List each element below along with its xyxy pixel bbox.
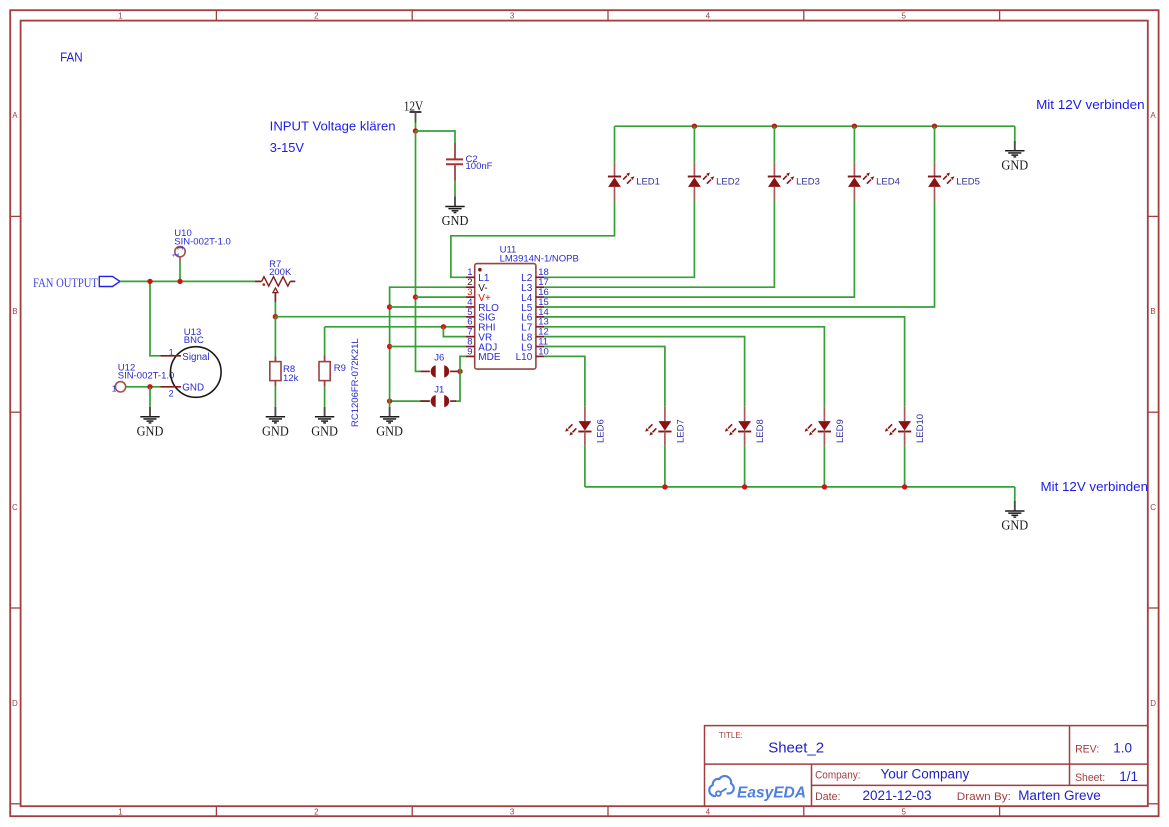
wire R7 wiper to SIG junction — [274, 302, 276, 317]
jumper J1 — [390, 384, 456, 407]
ground under R9 — [311, 407, 338, 439]
svg-text:Date:: Date: — [815, 791, 840, 803]
svg-text:200K: 200K — [269, 267, 292, 278]
wire to BNC signal — [150, 281, 161, 355]
wire SIG junction down to R8 — [274, 317, 276, 362]
svg-text:2: 2 — [169, 388, 174, 398]
LED LED2 — [688, 162, 740, 201]
netflag 12V — [404, 98, 424, 122]
svg-text:A: A — [12, 111, 18, 120]
svg-text:GND: GND — [262, 423, 289, 438]
junction rail — [852, 124, 857, 129]
LED LED3 — [768, 162, 820, 201]
wire SIG to pin 5 — [275, 316, 466, 318]
svg-text:MDE: MDE — [478, 352, 501, 363]
wire MDE to J6/J1 — [455, 356, 466, 401]
ground under U12 — [137, 407, 164, 439]
svg-text:TITLE:: TITLE: — [719, 730, 743, 740]
wire bottom rail to gnd — [1014, 487, 1016, 501]
wire RHI pin6 — [325, 326, 466, 328]
svg-text:SIN-002T-1.0: SIN-002T-1.0 — [118, 370, 175, 381]
svg-text:1: 1 — [176, 245, 185, 250]
svg-text:1: 1 — [169, 347, 174, 357]
text 3-15V — [270, 140, 305, 155]
svg-text:Signal: Signal — [182, 352, 209, 363]
wire 12V to C2 — [416, 131, 456, 143]
resistor R7 200K — [255, 259, 295, 302]
text Mit 12V verbinden (bottom) — [1041, 479, 1149, 494]
junction node U12 / BNC gnd — [147, 384, 152, 389]
svg-text:D: D — [12, 699, 18, 708]
wire 12V to junction — [415, 123, 417, 132]
svg-text:GND: GND — [182, 383, 204, 394]
svg-text:LED2: LED2 — [716, 177, 740, 188]
junction node FAN OUTPUT / BNC branch — [147, 279, 152, 284]
svg-text:Your Company: Your Company — [881, 767, 970, 782]
svg-text:RC1206FR-072K21L: RC1206FR-072K21L — [350, 338, 361, 427]
wire 12V down to J6 — [416, 131, 421, 371]
wire VR pin7 — [443, 327, 466, 337]
svg-text:LED7: LED7 — [675, 419, 686, 443]
wire C2 to ground — [454, 181, 456, 197]
svg-text:LM3914N-1/NOPB: LM3914N-1/NOPB — [500, 254, 579, 265]
svg-text:9: 9 — [467, 346, 472, 357]
svg-text:B: B — [1150, 307, 1155, 316]
EasyEDA logo — [709, 776, 806, 801]
junction rail — [902, 484, 907, 489]
capacitor C2 100nF — [446, 143, 493, 181]
connector U10 SIN-002T-1.0 — [172, 228, 231, 261]
LED LED6 — [565, 407, 606, 446]
ground under R8 — [262, 407, 289, 439]
text Mit 12V verbinden (top) — [1036, 97, 1145, 112]
svg-text:5: 5 — [901, 807, 906, 816]
junction rail — [772, 124, 777, 129]
svg-text:12k: 12k — [283, 373, 299, 384]
svg-text:B: B — [12, 307, 17, 316]
svg-text:GND: GND — [1001, 157, 1028, 172]
wire LED9 to bottom rail — [823, 446, 825, 487]
svg-text:Marten Greve: Marten Greve — [1018, 788, 1101, 803]
op-amp U11 LM3914N-1/NOPB — [466, 244, 579, 369]
svg-text:GND: GND — [1001, 518, 1028, 533]
junction J6 right — [457, 369, 462, 374]
wire R8 to ground — [274, 387, 276, 407]
connector U13 BNC — [161, 327, 222, 398]
wire RLO pin4 — [390, 306, 466, 308]
svg-text:12V: 12V — [404, 98, 424, 113]
junction node SIG — [273, 314, 278, 319]
wire V- net — [390, 287, 466, 407]
wire RHI corner to R9 — [324, 327, 326, 356]
wire pin 11 to LED7 — [544, 347, 665, 407]
wire rail to LED4 — [853, 126, 855, 162]
text FAN — [60, 50, 83, 65]
svg-text:GND: GND — [311, 423, 338, 438]
ground V- net — [376, 407, 403, 439]
wire pin 10 to LED6 — [544, 356, 585, 406]
svg-text:INPUT Voltage klären: INPUT Voltage klären — [270, 119, 396, 134]
svg-text:2: 2 — [314, 807, 319, 816]
svg-text:FAN: FAN — [60, 50, 83, 65]
wire LED4 to pin 16 — [544, 201, 854, 297]
junction rail — [932, 124, 937, 129]
text INPUT Voltage kl&#228;ren — [270, 119, 396, 134]
svg-text:GND: GND — [442, 213, 469, 228]
wire rail to LED2 — [693, 126, 695, 162]
svg-text:LED4: LED4 — [876, 177, 900, 188]
svg-text:GND: GND — [137, 423, 164, 438]
wire LED2 to pin 18 — [544, 201, 694, 277]
netport FAN OUTPUT — [33, 275, 120, 290]
svg-text:C: C — [12, 503, 18, 512]
svg-text:REV:: REV: — [1075, 744, 1099, 756]
svg-text:LED9: LED9 — [835, 419, 846, 443]
svg-text:Sheet:: Sheet: — [1075, 772, 1105, 784]
junction RHI/VR — [441, 324, 446, 329]
junction 12V — [413, 128, 418, 133]
wire ADJ pin8 — [390, 346, 466, 348]
junction ADJ — [387, 344, 392, 349]
ground under C2 — [442, 197, 469, 229]
LED LED4 — [848, 162, 900, 201]
junction V+ — [413, 294, 418, 299]
resistor R9 RC1206FR-072K21L — [319, 338, 361, 427]
connector U12 SIN-002T-1.0 — [112, 362, 175, 393]
svg-text:A: A — [1150, 111, 1156, 120]
svg-text:J1: J1 — [434, 384, 444, 395]
junction node FAN OUTPUT / U10 branch — [177, 279, 182, 284]
svg-text:1: 1 — [118, 11, 123, 20]
svg-text:BNC: BNC — [184, 335, 204, 346]
wire bottom rail — [585, 486, 1015, 488]
jumper J6 — [420, 352, 460, 377]
svg-text:LED1: LED1 — [636, 177, 660, 188]
wire LED8 to bottom rail — [744, 446, 746, 487]
svg-text:4: 4 — [706, 807, 711, 816]
svg-text:Mit 12V verbinden: Mit 12V verbinden — [1041, 479, 1149, 494]
title block — [705, 726, 1148, 807]
svg-text:5: 5 — [901, 11, 906, 20]
LED LED5 — [928, 162, 980, 201]
wire junction down to ground — [149, 387, 151, 407]
LED LED7 — [645, 407, 686, 446]
ground top rail — [1001, 141, 1028, 173]
wire LED7 to bottom rail — [664, 446, 666, 487]
svg-text:1: 1 — [112, 384, 117, 394]
svg-text:LED6: LED6 — [595, 419, 606, 443]
wire pin 13 to LED9 — [544, 327, 824, 407]
svg-text:LED10: LED10 — [915, 414, 926, 443]
wire R9 to ground — [324, 387, 326, 407]
ground bottom rail — [1001, 501, 1028, 533]
svg-text:GND: GND — [376, 423, 403, 438]
wire rail to LED3 — [773, 126, 775, 162]
LED LED8 — [725, 407, 766, 446]
svg-text:EasyEDA: EasyEDA — [737, 785, 806, 802]
wire pin 12 to LED8 — [544, 337, 744, 407]
junction rail — [692, 124, 697, 129]
wire rail to gnd — [1014, 126, 1016, 141]
svg-text:LED5: LED5 — [956, 177, 980, 188]
svg-text:1/1: 1/1 — [1119, 769, 1138, 784]
wire top 12V rail — [615, 125, 1015, 127]
wire LED6 to bottom rail — [584, 446, 586, 487]
wire pin1 to LED1 — [451, 201, 615, 277]
svg-text:LED3: LED3 — [796, 177, 820, 188]
svg-text:2: 2 — [314, 11, 319, 20]
svg-text:1: 1 — [118, 807, 123, 816]
svg-text:LED8: LED8 — [755, 419, 766, 443]
junction rail — [822, 484, 827, 489]
resistor R8 12k — [270, 357, 299, 387]
wire to U10 — [179, 262, 181, 282]
svg-text:Company:: Company: — [815, 770, 860, 782]
wire V+ pin3 — [416, 296, 467, 298]
wire LED5 to pin 15 — [544, 201, 934, 307]
svg-text:1: 1 — [172, 252, 181, 257]
svg-text:FAN OUTPUT: FAN OUTPUT — [33, 275, 98, 290]
LED LED10 — [885, 407, 926, 446]
svg-text:D: D — [1150, 699, 1156, 708]
svg-text:100nF: 100nF — [466, 161, 493, 172]
svg-text:4: 4 — [706, 11, 711, 20]
svg-text:J6: J6 — [434, 352, 444, 363]
LED LED1 — [608, 162, 660, 201]
junction J1 left — [387, 398, 392, 403]
svg-text:3: 3 — [510, 807, 515, 816]
svg-text:1.0: 1.0 — [1113, 741, 1132, 756]
wire U12 to BNC gnd pin — [126, 386, 161, 388]
wire LED3 to pin 17 — [544, 201, 774, 287]
junction rail — [662, 484, 667, 489]
svg-text:R9: R9 — [334, 363, 346, 374]
svg-text:Mit 12V verbinden: Mit 12V verbinden — [1036, 97, 1145, 112]
svg-text:3-15V: 3-15V — [270, 140, 305, 155]
svg-text:L10: L10 — [516, 352, 533, 363]
svg-text:C: C — [1150, 503, 1156, 512]
wire FAN OUTPUT main — [120, 280, 255, 282]
wire rail to LED5 — [934, 126, 936, 162]
svg-text:2021-12-03: 2021-12-03 — [863, 788, 932, 803]
wire rail to LED1 — [614, 126, 616, 162]
wire LED10 to bottom rail — [904, 446, 906, 487]
wire pin 14 to LED10 — [544, 317, 904, 407]
LED LED9 — [805, 407, 846, 446]
junction rail — [742, 484, 747, 489]
junction RLO — [387, 304, 392, 309]
svg-text:Sheet_2: Sheet_2 — [768, 740, 824, 757]
svg-text:Drawn By:: Drawn By: — [957, 791, 1011, 803]
svg-text:3: 3 — [510, 11, 515, 20]
